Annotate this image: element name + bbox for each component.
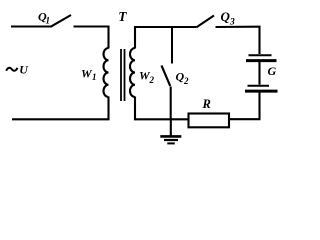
ground bar 2 bbox=[164, 139, 178, 141]
label Q3 bbox=[221, 9, 236, 28]
label ~U (AC supply) bbox=[6, 63, 29, 77]
capacitor G cell 2 top plate bbox=[248, 85, 270, 87]
label W2 bbox=[139, 69, 155, 86]
transformer core bbox=[121, 49, 125, 101]
svg-text:1: 1 bbox=[92, 72, 97, 82]
svg-text:R: R bbox=[202, 97, 211, 111]
wire: Q2 bottom contact down to bottom rail bbox=[170, 87, 172, 120]
capacitor G cell 1 top plate bbox=[249, 54, 272, 56]
wire: top-left from AC source to switch Q1 bbox=[11, 25, 51, 27]
resistor R body bbox=[189, 114, 230, 128]
wire: Q3 right contact to capacitor bank G bbox=[216, 27, 260, 54]
wire: between cells of G bbox=[258, 62, 260, 85]
ground stem bbox=[170, 119, 172, 136]
label Q1 bbox=[38, 10, 50, 26]
capacitor G cell 2 bottom plate bbox=[245, 90, 278, 93]
label W1 bbox=[81, 67, 97, 83]
capacitor G cell 1 bottom plate bbox=[246, 59, 277, 62]
wire: Q2 branch tap from secondary top bbox=[171, 26, 173, 64]
wire: W2 bottom to secondary bottom rail bbox=[135, 97, 189, 120]
switch Q2 blade bbox=[162, 66, 171, 87]
svg-text:G: G bbox=[268, 64, 277, 78]
svg-text:1: 1 bbox=[46, 16, 51, 26]
transformer T primary winding W1 bbox=[104, 48, 109, 97]
ground bar 3 bbox=[167, 142, 175, 144]
wire: G bottom down and left to resistor R bbox=[229, 93, 260, 120]
wire: Q1 right contact to transformer primary top bbox=[74, 27, 109, 49]
svg-text:2: 2 bbox=[149, 75, 155, 85]
svg-text:Q: Q bbox=[221, 9, 231, 24]
switch Q3 blade bbox=[197, 16, 215, 28]
transformer secondary winding W2 bbox=[130, 48, 135, 97]
svg-text:U: U bbox=[19, 63, 29, 77]
ground bar 1 bbox=[160, 135, 181, 138]
switch Q1 blade bbox=[51, 15, 72, 27]
wire: secondary top from W2 to switch Q3 bbox=[135, 27, 197, 49]
svg-text:T: T bbox=[118, 9, 127, 24]
svg-text:2: 2 bbox=[183, 76, 189, 86]
label Q2 bbox=[176, 70, 190, 87]
wire: W1 bottom to primary bottom rail bbox=[12, 97, 109, 120]
